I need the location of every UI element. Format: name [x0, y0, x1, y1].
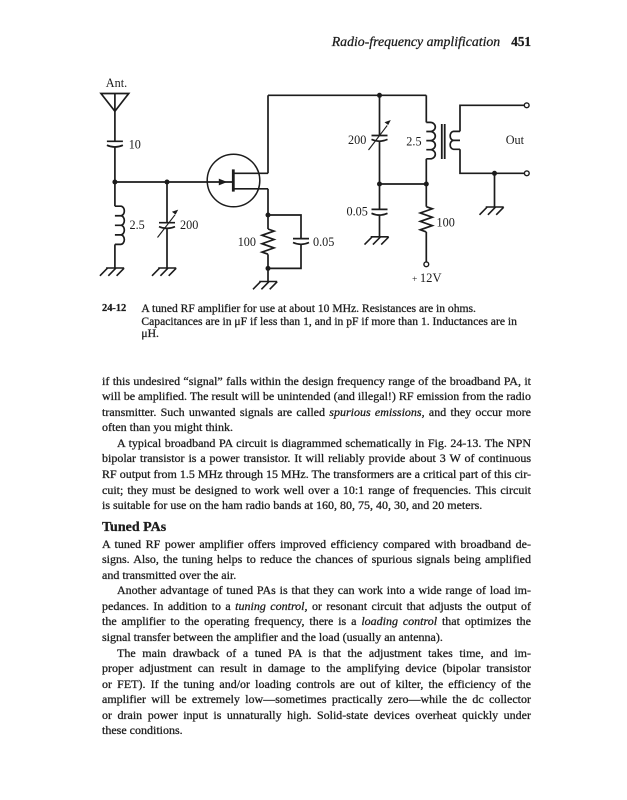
- gate arrowhead of Q1: [219, 179, 227, 186]
- wire R1 to node D: [267, 254, 269, 268]
- ground below C5: [365, 237, 389, 245]
- wire node G down to R2: [425, 184, 427, 207]
- ground below node D: [253, 282, 277, 290]
- wire antenna to C1: [114, 111, 116, 141]
- svg-text:200: 200: [348, 133, 366, 147]
- supply terminal circle: [424, 262, 429, 267]
- wire node E down to C4: [379, 95, 381, 135]
- svg-text:10: 10: [129, 138, 141, 152]
- transformer T1 primary winding 2.5 uH: [426, 122, 435, 158]
- wire node C down to R1: [267, 215, 269, 229]
- drain lead of Q1: [233, 172, 268, 174]
- svg-text:0.05: 0.05: [347, 205, 368, 219]
- transistor Q1 envelope: [207, 154, 260, 207]
- wire C3 down to bottom: [268, 244, 301, 269]
- svg-text:2.5: 2.5: [406, 135, 421, 149]
- resistor R1 100 ohms: [262, 229, 274, 254]
- wire C2 to ground: [166, 228, 168, 268]
- Out bottom terminal circle: [524, 171, 529, 176]
- wire node F down to C5: [379, 184, 381, 209]
- wire drain up to top rail: [267, 95, 269, 173]
- wire node D to ground: [267, 268, 269, 281]
- svg-text:0.05: 0.05: [313, 235, 334, 249]
- resistor R2 100 ohms: [420, 207, 432, 232]
- node E junction on top rail: [377, 93, 382, 98]
- wire node B down to C2: [166, 182, 168, 223]
- svg-text:+ 12V: + 12V: [412, 271, 442, 285]
- node H junction on output line: [492, 171, 497, 176]
- wire node C to C3 branch: [268, 215, 301, 239]
- node D junction: [266, 266, 271, 271]
- channel bar of Q1: [232, 169, 235, 191]
- node G junction: [424, 182, 429, 187]
- wire node H to ground: [494, 173, 496, 207]
- source lead of Q1: [233, 188, 268, 190]
- wire L1 to ground: [114, 244, 116, 268]
- svg-text:100: 100: [238, 235, 256, 249]
- wire T1 primary to node G: [425, 159, 427, 184]
- ground below node H: [480, 207, 504, 215]
- wire C5 to ground: [379, 214, 381, 236]
- variable capacitor C4 200 pF: [372, 136, 388, 142]
- ground below L1: [100, 268, 124, 276]
- wire top rail corner down to T1 primary: [425, 95, 427, 122]
- svg-text:Out: Out: [506, 133, 525, 147]
- ground below C2: [152, 268, 176, 276]
- wire R2 to supply terminal: [425, 232, 427, 262]
- wire node F to node G: [380, 183, 427, 185]
- capacitor C3 0.05 uF: [293, 239, 309, 245]
- wire node A down to L1: [114, 182, 116, 206]
- wire node A to gate of Q1: [115, 181, 233, 183]
- svg-text:2.5: 2.5: [130, 218, 145, 232]
- svg-text:100: 100: [437, 216, 455, 230]
- capacitor C1 10 pF: [107, 141, 123, 147]
- inductor L1 2.5 uH: [115, 206, 124, 244]
- variable capacitor C2 200 pF: [159, 223, 175, 229]
- antenna symbol: [101, 94, 129, 112]
- wire top rail: [268, 94, 426, 96]
- transformer T1 core: [442, 124, 445, 159]
- transformer T1 secondary winding: [450, 131, 460, 149]
- svg-text:200: 200: [180, 218, 198, 232]
- wire source down to node C: [267, 189, 269, 215]
- Out top terminal circle: [524, 103, 529, 108]
- wire secondary top to Out terminal: [460, 105, 524, 131]
- wire secondary bottom to Out terminal: [460, 149, 524, 173]
- svg-text:Ant.: Ant.: [106, 76, 127, 90]
- node A junction: [112, 180, 117, 185]
- node F junction: [377, 182, 382, 187]
- wire C1 to node A: [114, 146, 116, 182]
- wire C4 down to node F: [379, 141, 381, 185]
- node C junction: [266, 213, 271, 218]
- node B junction: [165, 180, 170, 185]
- capacitor C5 0.05 uF: [372, 209, 388, 215]
- arrow of C4: [369, 126, 388, 151]
- arrow of C2: [158, 215, 176, 238]
